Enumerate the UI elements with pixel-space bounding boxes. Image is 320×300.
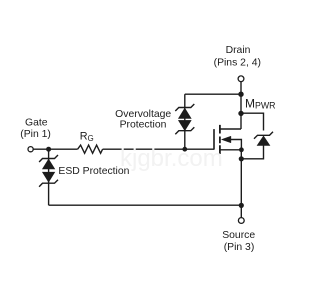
- svg-text:Source: Source: [222, 230, 255, 241]
- svg-text:Overvoltage: Overvoltage: [115, 109, 171, 120]
- wire drain rail: [240, 82, 242, 129]
- overvoltage zener D4 (lower, cathode down): [175, 120, 194, 134]
- node drain/body-diode junction: [238, 111, 243, 116]
- svg-text:RG: RG: [80, 131, 94, 143]
- svg-text:Gate: Gate: [25, 118, 48, 129]
- wire body-diode branch bottom: [241, 145, 263, 159]
- wire overvoltage branch vertical: [184, 94, 186, 149]
- drain terminal circle (Pins 2,4): [238, 76, 244, 82]
- ESD zener D1 (upper, cathode up): [39, 155, 58, 169]
- overvoltage zener D3 (upper, cathode up): [175, 104, 194, 118]
- node drain/overvoltage junction: [238, 92, 243, 97]
- gate terminal circle (Pin 1): [28, 147, 33, 152]
- wire overvoltage top horizontal: [185, 93, 241, 95]
- ESD zener D2 (lower, cathode down): [39, 172, 58, 187]
- transistor MPWR gate bar: [213, 129, 215, 150]
- wire gate horizontal: [33, 148, 214, 150]
- svg-text:(Pins 2, 4): (Pins 2, 4): [214, 58, 261, 69]
- node body-diode return junction: [239, 156, 244, 161]
- svg-text:MPWR: MPWR: [245, 97, 276, 111]
- svg-text:(Pin 1): (Pin 1): [20, 129, 51, 140]
- node overvoltage/gate junction: [182, 147, 187, 152]
- svg-text:ESD Protection: ESD Protection: [58, 166, 129, 177]
- wire bottom horizontal: [49, 204, 242, 206]
- wire body-diode branch top: [241, 113, 264, 130]
- svg-text:Protection: Protection: [120, 120, 167, 131]
- svg-text:(Pin 3): (Pin 3): [224, 242, 255, 253]
- wire source rail: [240, 150, 242, 218]
- node source lead junction: [239, 147, 244, 152]
- source terminal circle (Pin 3): [238, 218, 244, 224]
- wire ESD branch vertical: [48, 149, 50, 205]
- body diode zener D5 (cathode up): [254, 132, 273, 146]
- transistor MPWR channel segments: [219, 125, 221, 154]
- svg-text:Drain: Drain: [226, 45, 251, 56]
- node gate junction: [46, 147, 51, 152]
- resistor R_G: [78, 145, 103, 153]
- node source/ESD junction: [239, 203, 244, 208]
- wire source lead: [220, 149, 242, 151]
- wire drain lead: [220, 128, 241, 130]
- transistor MPWR body arrow: [222, 136, 231, 143]
- svg-text:kjgbr.com: kjgbr.com: [120, 145, 223, 172]
- wire body lead: [230, 140, 241, 150]
